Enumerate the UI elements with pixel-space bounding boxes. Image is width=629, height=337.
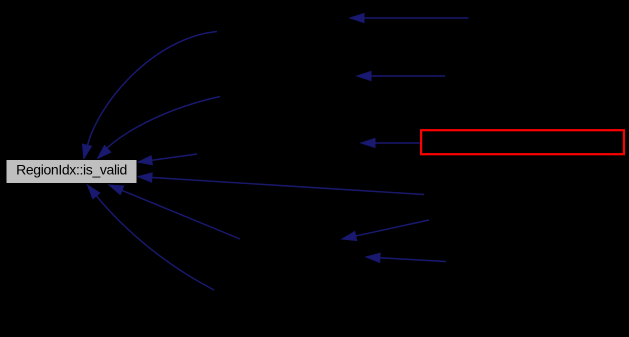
svg-text:RegionIdx::is_valid: RegionIdx::is_valid — [16, 162, 127, 178]
